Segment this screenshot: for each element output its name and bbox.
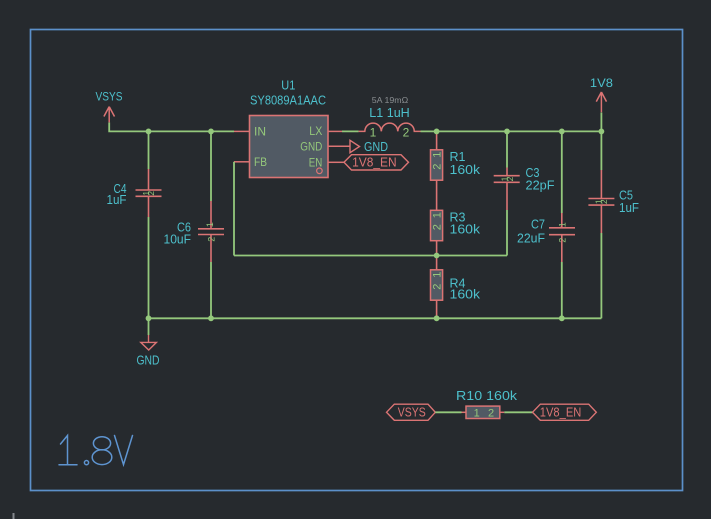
svg-text:1: 1 xyxy=(558,222,568,227)
wire C6 top xyxy=(210,131,212,201)
pin R1-R3 stubs xyxy=(436,180,438,210)
svg-text:1V8_EN: 1V8_EN xyxy=(352,155,397,169)
pin U1 FB xyxy=(234,161,250,163)
svg-text:2: 2 xyxy=(432,284,444,290)
wire FB net vertical xyxy=(233,162,235,256)
svg-text:VSYS: VSYS xyxy=(398,405,426,419)
svg-text:LX: LX xyxy=(309,126,322,138)
svg-text:1V8_EN: 1V8_EN xyxy=(540,405,582,419)
pin U1 EN bubble xyxy=(317,168,323,174)
svg-text:1uF: 1uF xyxy=(619,201,639,215)
svg-text:2: 2 xyxy=(207,237,217,242)
svg-text:5A 19mΩ: 5A 19mΩ xyxy=(372,95,409,105)
inductor L1 xyxy=(359,123,421,131)
pin R4 bottom stub xyxy=(436,300,438,318)
junction top R1 xyxy=(434,129,440,135)
svg-text:2: 2 xyxy=(146,191,156,196)
svg-text:1: 1 xyxy=(432,152,444,158)
hier label 1V8_EN shape xyxy=(344,155,409,170)
svg-text:160k: 160k xyxy=(450,223,481,237)
svg-text:U1: U1 xyxy=(281,79,295,93)
svg-text:FB: FB xyxy=(254,157,267,169)
capacitor C3 xyxy=(494,168,520,211)
junction top 1V8 xyxy=(599,129,605,135)
sheet title 1.8V xyxy=(59,436,133,465)
capacitor C4 xyxy=(136,169,162,217)
svg-text:1: 1 xyxy=(432,212,444,218)
power symbol VSYS xyxy=(104,107,115,123)
svg-text:SY8089A1AAC: SY8089A1AAC xyxy=(250,94,326,108)
wire R10 to 1V8_EN xyxy=(504,411,532,413)
resistor R10 xyxy=(466,406,500,418)
wire 1V8 riser xyxy=(600,113,602,132)
pin R3-R4 stubs xyxy=(436,241,438,270)
pin U1 EN xyxy=(328,161,344,163)
wire VSYS to IN rail xyxy=(109,123,234,132)
screen tick mark xyxy=(13,513,15,519)
pin U1 IN xyxy=(234,130,250,132)
wire VSYS to R10 xyxy=(435,411,461,413)
junction rail C4 xyxy=(146,315,152,321)
svg-text:160k: 160k xyxy=(450,288,481,302)
wire C7 top xyxy=(561,131,563,213)
wire C3 bottom to FB xyxy=(506,210,508,256)
svg-text:IN: IN xyxy=(254,127,266,139)
svg-text:VSYS: VSYS xyxy=(96,90,123,104)
junction FB node xyxy=(434,253,440,259)
hier label 1V8_EN bottom shape xyxy=(533,404,597,420)
capacitor C7 xyxy=(549,213,575,262)
pin R10 left stub xyxy=(462,411,467,413)
junction top C3 xyxy=(504,129,510,135)
pin U1 LX xyxy=(328,130,342,132)
junction top C6 xyxy=(208,129,214,135)
wire C6 bottom xyxy=(210,262,212,318)
svg-text:1: 1 xyxy=(370,126,377,140)
pin U1 GND xyxy=(328,145,350,147)
svg-text:1: 1 xyxy=(205,222,215,227)
svg-text:1: 1 xyxy=(432,272,444,278)
junction top C7 xyxy=(559,129,565,135)
junction rail R4 xyxy=(434,315,440,321)
svg-text:10uF: 10uF xyxy=(164,232,192,246)
svg-text:22pF: 22pF xyxy=(526,178,555,192)
hier label VSYS shape xyxy=(387,404,436,420)
svg-text:GND: GND xyxy=(300,142,322,154)
svg-text:EN: EN xyxy=(309,157,323,169)
wire C7 bottom xyxy=(561,262,563,318)
resistor R3 xyxy=(431,210,443,240)
resistor R4 xyxy=(431,270,443,300)
wire C3 top xyxy=(506,131,508,167)
wire LX to inductor xyxy=(342,130,359,132)
wire C4 top xyxy=(148,131,150,169)
hier label GND arrow xyxy=(350,140,360,152)
svg-text:2: 2 xyxy=(557,238,567,243)
svg-text:1uF: 1uF xyxy=(107,193,127,207)
svg-text:1: 1 xyxy=(474,408,480,420)
op-amp U1 body xyxy=(250,116,329,178)
svg-text:L1 1uH: L1 1uH xyxy=(369,105,410,120)
power symbol 1V8 xyxy=(596,92,606,112)
svg-text:1V8: 1V8 xyxy=(590,76,613,90)
svg-text:GND: GND xyxy=(137,353,160,367)
resistor R1 xyxy=(431,150,443,180)
svg-text:2: 2 xyxy=(505,176,515,181)
wire FB net horizontal xyxy=(234,255,507,257)
svg-text:R10 160k: R10 160k xyxy=(456,389,518,403)
wire GND drop xyxy=(148,318,150,335)
svg-text:GND: GND xyxy=(364,139,388,154)
svg-text:2: 2 xyxy=(403,126,410,140)
svg-text:2: 2 xyxy=(599,199,609,204)
svg-text:2: 2 xyxy=(432,164,444,170)
svg-text:C7: C7 xyxy=(531,217,545,231)
svg-text:160k: 160k xyxy=(450,163,481,177)
junction top C4 xyxy=(146,129,152,135)
power symbol GND xyxy=(141,335,157,350)
wire C5 bottom xyxy=(600,233,602,318)
junction rail C6 xyxy=(208,315,214,321)
wire C5 top xyxy=(600,131,602,170)
svg-text:22uF: 22uF xyxy=(517,231,545,245)
wire C4 bottom xyxy=(148,217,150,318)
wire LX rail to 1V8 xyxy=(421,130,602,132)
svg-text:2: 2 xyxy=(488,408,494,420)
wire ground rail xyxy=(149,317,602,319)
junction rail C7 xyxy=(559,315,565,321)
capacitor C5 xyxy=(588,170,614,233)
pin R1 top stub xyxy=(436,131,438,149)
capacitor C6 xyxy=(198,201,224,262)
pin R10 right stub xyxy=(500,411,505,413)
svg-text:2: 2 xyxy=(432,224,444,230)
